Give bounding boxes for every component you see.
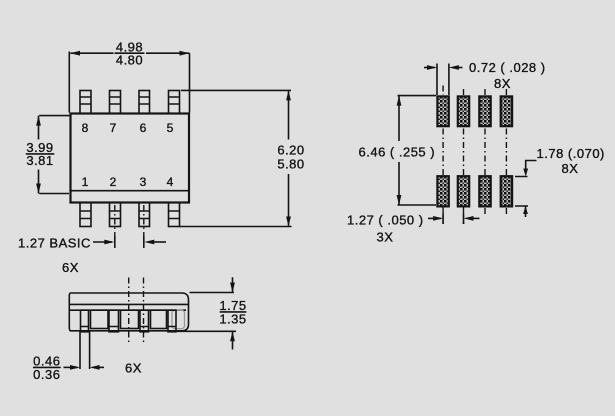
- svg-text:3X: 3X: [377, 230, 394, 245]
- svg-text:6.46 ( .255 ): 6.46 ( .255 ): [359, 145, 436, 160]
- svg-text:1.78 (.070): 1.78 (.070): [537, 146, 605, 161]
- svg-text:6X: 6X: [62, 260, 79, 275]
- svg-text:5: 5: [167, 121, 174, 135]
- svg-text:1: 1: [82, 175, 89, 189]
- svg-text:6: 6: [140, 121, 147, 135]
- svg-text:1.27 BASIC: 1.27 BASIC: [18, 236, 91, 251]
- svg-text:4: 4: [167, 175, 174, 189]
- svg-text:8: 8: [82, 121, 89, 135]
- svg-text:8X: 8X: [494, 76, 511, 91]
- svg-text:4.80: 4.80: [116, 53, 143, 68]
- svg-text:5.80: 5.80: [277, 157, 304, 172]
- svg-text:3.81: 3.81: [26, 153, 53, 168]
- svg-text:8X: 8X: [562, 161, 579, 176]
- svg-text:1.27 ( .050 ): 1.27 ( .050 ): [347, 213, 424, 228]
- svg-text:6X: 6X: [125, 361, 142, 376]
- svg-text:1.35: 1.35: [219, 312, 246, 327]
- svg-text:2: 2: [110, 175, 117, 189]
- svg-text:0.72 ( .028 ): 0.72 ( .028 ): [469, 60, 546, 75]
- svg-text:6.20: 6.20: [277, 143, 304, 158]
- svg-text:0.36: 0.36: [33, 367, 60, 382]
- svg-text:7: 7: [110, 121, 117, 135]
- svg-text:3: 3: [140, 175, 147, 189]
